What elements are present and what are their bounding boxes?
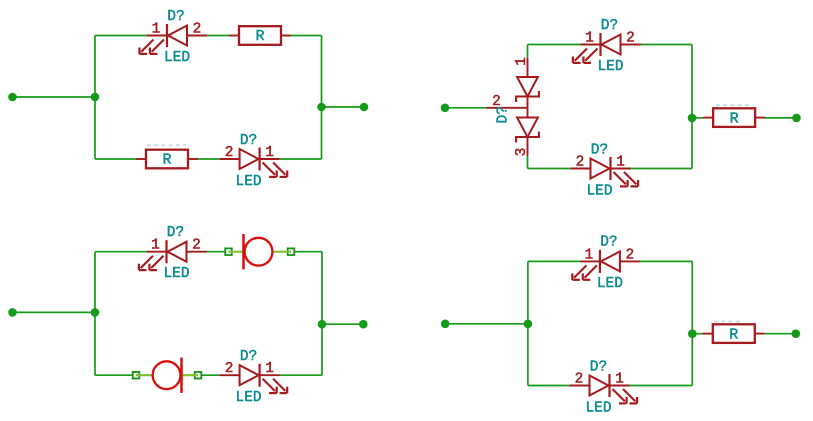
dual zener diode D? <box>486 45 539 169</box>
svg-text:D?: D? <box>496 106 512 123</box>
wire: circuit3 left vertical <box>94 252 96 376</box>
svg-text:LED: LED <box>597 59 623 75</box>
svg-text:D?: D? <box>601 18 618 34</box>
svg-text:1: 1 <box>615 372 624 388</box>
wire: circuit1 left input stub <box>13 96 96 98</box>
node: circuit3 input endpoint <box>8 308 17 317</box>
node: circuit4 output endpoint <box>792 329 801 338</box>
LED D? top-left circuit, top branch <box>139 9 207 66</box>
svg-text:2: 2 <box>192 238 201 254</box>
junction: circuit4 left <box>524 320 533 329</box>
wire: circuit3 bottom (led to corner) <box>279 374 322 376</box>
LED D? bottom-left circuit, top branch <box>139 225 207 282</box>
svg-text:1: 1 <box>616 155 625 171</box>
svg-text:R: R <box>162 152 171 169</box>
svg-text:LED: LED <box>236 174 262 190</box>
junction: circuit1 right <box>317 103 326 112</box>
faded hidden reference above R output circuit2 <box>716 104 751 106</box>
svg-text:R: R <box>730 110 739 127</box>
wire: circuit2 left input stub <box>445 107 486 109</box>
svg-text:2: 2 <box>575 372 584 388</box>
resistor R bottom branch circuit1 <box>136 150 198 169</box>
wire: circuit3 top (corner to LED) <box>95 251 147 253</box>
lamp (bar+circle) top branch <box>244 234 273 269</box>
wire: circuit3 right output stub <box>322 323 363 325</box>
node: circuit2 output endpoint <box>792 114 801 123</box>
svg-text:D?: D? <box>240 349 257 365</box>
svg-text:1: 1 <box>265 145 274 161</box>
wire: circuit2 resistor to output <box>765 117 796 119</box>
wire: circuit1 bottom (resistor to LED) <box>198 158 220 160</box>
node: circuit3 output endpoint <box>359 320 368 329</box>
svg-text:1: 1 <box>585 247 594 263</box>
wire: circuit1 left vertical <box>94 36 96 160</box>
svg-text:2: 2 <box>193 22 202 38</box>
svg-text:1: 1 <box>514 57 530 66</box>
svg-text:D?: D? <box>590 360 607 376</box>
junction: circuit1 left <box>91 93 100 102</box>
wire: circuit3 bottom (corner to lamp) <box>95 374 136 376</box>
wire: circuit1 right output stub <box>322 106 365 108</box>
LED D? top-right circuit, top branch <box>573 18 641 75</box>
svg-text:1: 1 <box>151 238 160 254</box>
wire: circuit4 left input stub <box>445 323 528 325</box>
resistor R output circuit2 <box>703 108 765 127</box>
LED D? bottom-left circuit, bottom branch <box>220 349 288 406</box>
wire: circuit4 bottom (LED to corner) <box>630 385 693 387</box>
LED D? bottom-right circuit, bottom branch <box>570 360 638 417</box>
wire: circuit3 top (LED to lamp) <box>207 251 229 253</box>
svg-text:D?: D? <box>591 143 608 159</box>
LED D? top-left circuit, bottom branch <box>220 133 288 190</box>
faded hidden reference above R bottom branch circuit1 <box>147 144 186 146</box>
svg-text:1: 1 <box>152 22 161 38</box>
svg-text:3: 3 <box>514 148 530 157</box>
svg-text:1: 1 <box>265 361 274 377</box>
node: circuit2 input endpoint <box>441 104 450 113</box>
wire: circuit2 top (LED to corner) <box>641 44 693 46</box>
dangling wire-end square right of bottom lamp <box>195 372 202 379</box>
junction: circuit3 left <box>91 308 100 317</box>
wire: circuit1 top (LED to resistor) <box>207 35 229 37</box>
wire: circuit4 junction to resistor <box>692 333 703 335</box>
svg-text:D?: D? <box>600 235 617 251</box>
wire: circuit2 right vertical <box>691 45 693 169</box>
dangling wire-end square left of top lamp <box>225 248 232 255</box>
svg-text:LED: LED <box>585 401 611 417</box>
wire: circuit3 left input stub <box>13 311 96 313</box>
wire: circuit4 bottom (corner to LED) <box>528 385 570 387</box>
svg-text:D?: D? <box>167 225 184 241</box>
node: circuit1 input endpoint <box>8 93 17 102</box>
wire: circuit1 top (resistor to corner) <box>291 35 322 37</box>
svg-text:LED: LED <box>597 276 623 292</box>
svg-text:R: R <box>729 326 738 343</box>
junction: circuit3 right <box>318 320 327 329</box>
wire: circuit2 top (corner to LED) <box>528 44 581 46</box>
svg-text:D?: D? <box>240 133 257 149</box>
wire: circuit3 bottom (lamp to led) <box>198 374 220 376</box>
wire: circuit2 bottom (corner to LED) <box>528 168 571 170</box>
wire: circuit4 right vertical <box>691 261 693 385</box>
svg-text:LED: LED <box>236 390 262 406</box>
wire: circuit4 left vertical <box>527 261 529 385</box>
wire: circuit3 right vertical <box>321 252 323 376</box>
wire: circuit2 bottom (LED to corner) <box>631 168 693 170</box>
resistor R top branch circuit1 <box>229 26 291 45</box>
wire: circuit1 top (corner to LED) <box>95 35 147 37</box>
node: circuit1 output endpoint <box>360 103 369 112</box>
faded hidden reference above R output circuit4 <box>714 321 741 323</box>
LED D? top-right circuit, bottom branch <box>571 143 639 200</box>
svg-text:R: R <box>255 28 264 45</box>
svg-text:2: 2 <box>225 145 234 161</box>
svg-text:1: 1 <box>585 31 594 47</box>
wire: circuit2 junction to resistor <box>692 117 703 119</box>
wire: circuit4 resistor to output <box>765 333 796 335</box>
resistor R output circuit4 <box>703 324 765 343</box>
svg-text:LED: LED <box>163 266 189 282</box>
wire: circuit1 bottom (LED to corner) <box>280 158 322 160</box>
svg-text:LED: LED <box>164 50 190 66</box>
wire: circuit4 top (LED to corner) <box>640 260 692 262</box>
junction: circuit4 right <box>688 329 697 338</box>
wire: circuit1 right vertical <box>321 36 323 160</box>
wire: circuit1 bottom (corner to resistor) <box>95 158 136 160</box>
svg-text:D?: D? <box>167 9 184 25</box>
lamp (circle+bar) bottom branch <box>153 358 182 393</box>
node: circuit4 input endpoint <box>441 320 450 329</box>
selected lamp element bottom branch: bright pins <box>136 374 153 376</box>
dangling wire-end square right of top lamp <box>288 248 295 255</box>
wire: circuit3 top (lamp to corner) <box>291 251 322 253</box>
wire: circuit4 top (corner to LED) <box>528 260 580 262</box>
svg-text:2: 2 <box>626 31 635 47</box>
dangling wire-end square left of bottom lamp <box>133 372 140 379</box>
svg-text:LED: LED <box>586 184 612 200</box>
selected lamp element top branch: bright pins <box>229 251 246 253</box>
LED D? bottom-right circuit, top branch <box>572 235 640 292</box>
junction: circuit2 right <box>688 114 697 123</box>
svg-text:2: 2 <box>225 361 234 377</box>
svg-text:2: 2 <box>626 247 635 263</box>
svg-text:2: 2 <box>576 155 585 171</box>
